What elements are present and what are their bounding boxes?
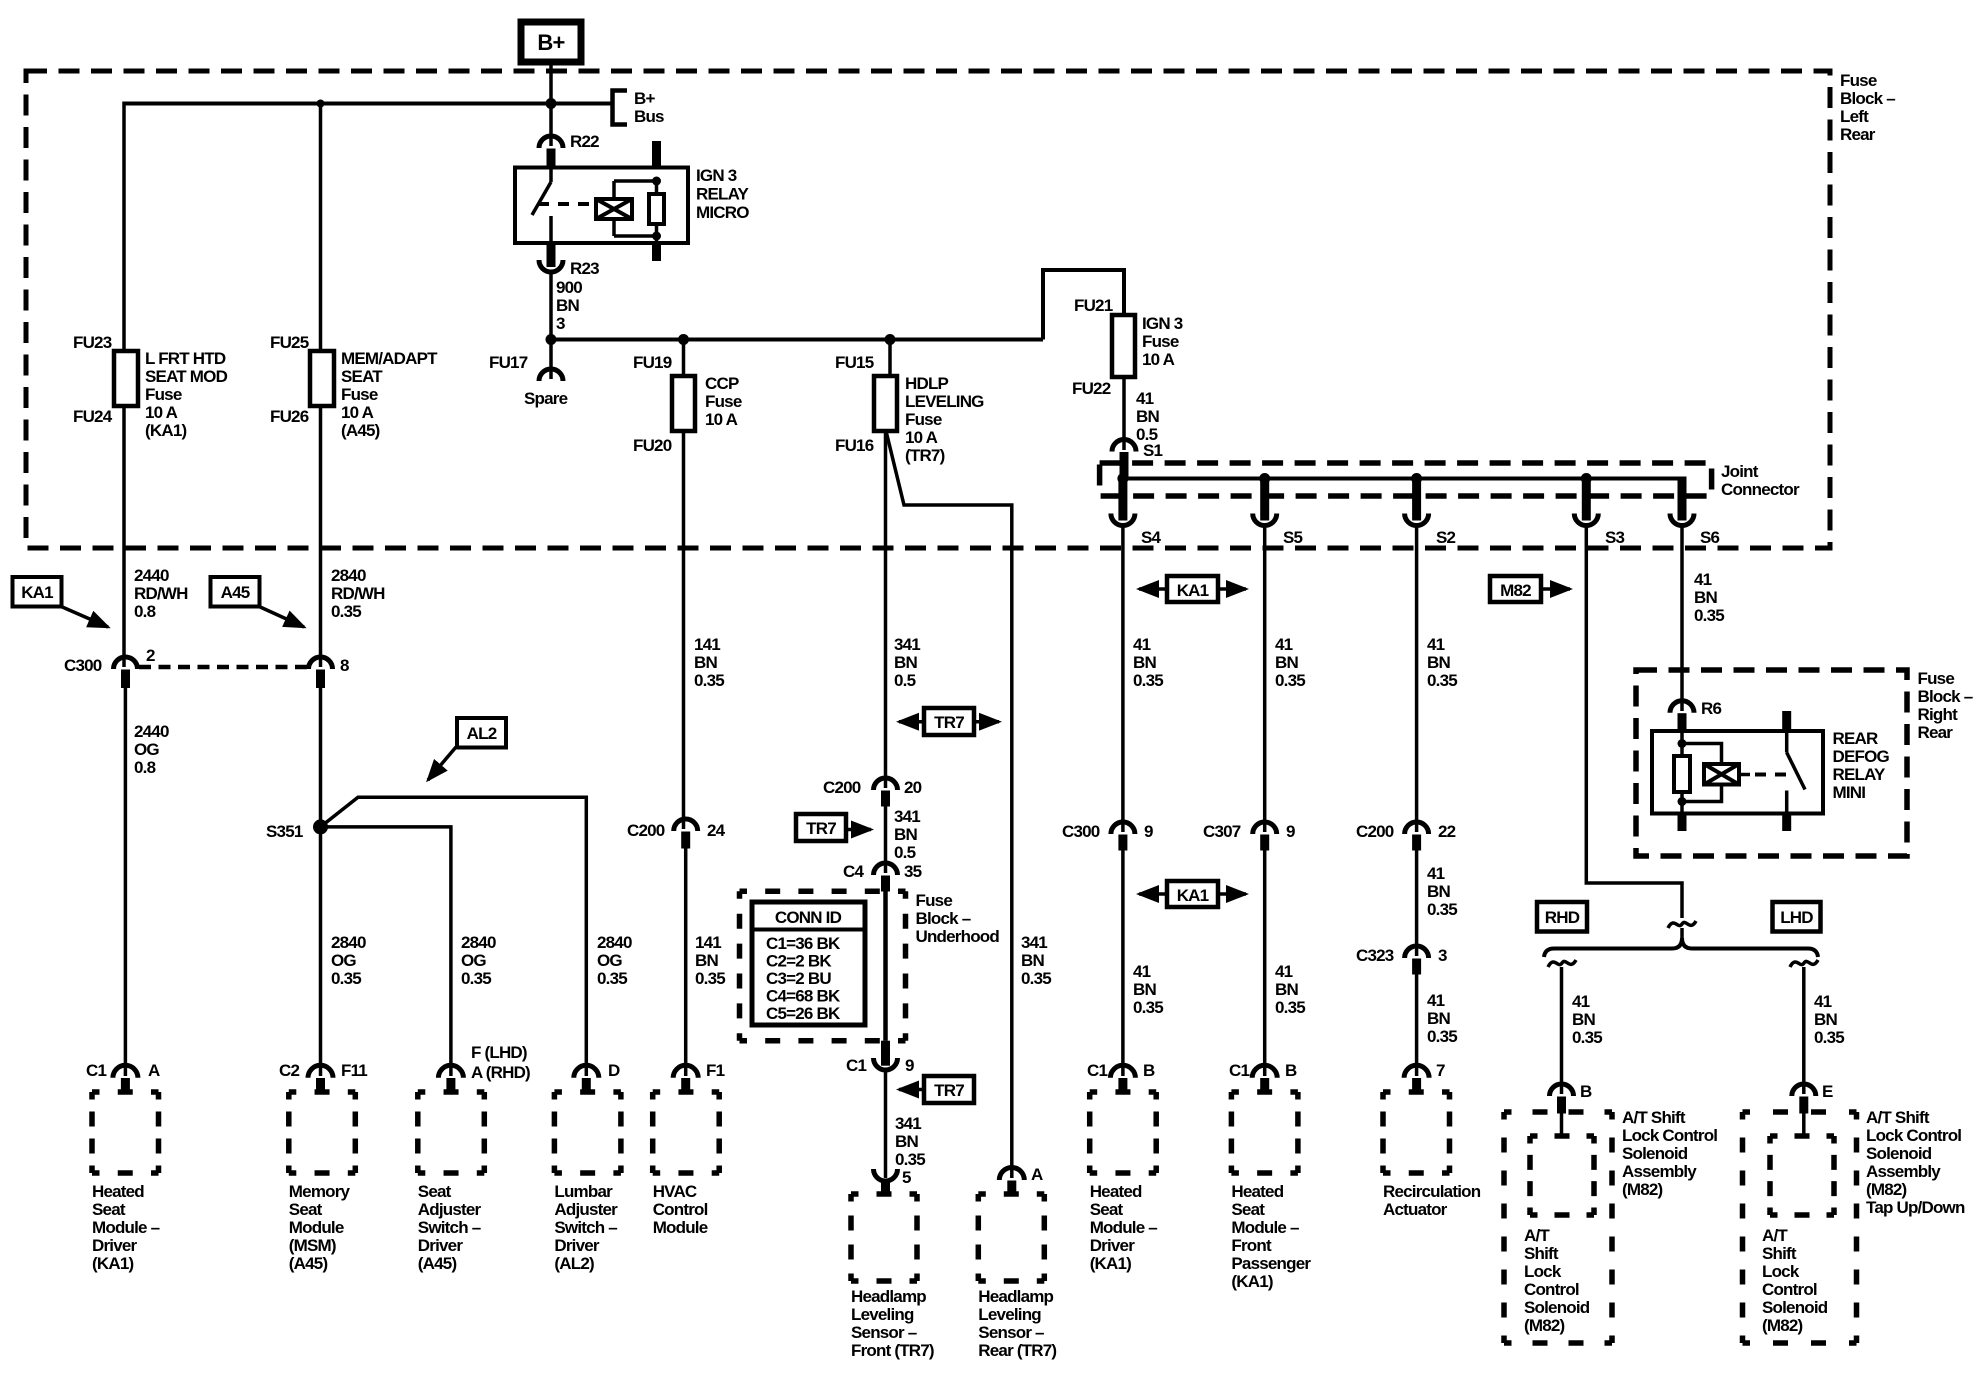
svg-text:R22: R22 xyxy=(570,132,599,151)
svg-text:Control: Control xyxy=(1762,1280,1817,1299)
wire S2 to C200 xyxy=(1415,526,1419,833)
svg-text:OG: OG xyxy=(461,951,486,970)
connector C300 pin 8 xyxy=(309,657,333,669)
connector C1 pin 9 xyxy=(881,1041,890,1066)
svg-text:FU19: FU19 xyxy=(633,353,672,372)
svg-text:FU24: FU24 xyxy=(73,407,113,426)
IGN3 relay control dashed line xyxy=(538,202,596,206)
svg-text:Seat: Seat xyxy=(418,1182,452,1201)
svg-text:Bus: Bus xyxy=(634,107,664,126)
svg-text:Seat: Seat xyxy=(1090,1200,1124,1219)
svg-text:DEFOG: DEFOG xyxy=(1833,747,1890,766)
svg-text:141: 141 xyxy=(694,635,720,654)
svg-text:Headlamp: Headlamp xyxy=(978,1287,1053,1306)
wire ignition feed bus xyxy=(551,338,1043,342)
fuse block left rear (dashed box) xyxy=(26,71,1830,548)
svg-text:Shift: Shift xyxy=(1524,1244,1559,1263)
svg-text:A: A xyxy=(1031,1165,1043,1184)
connector pin B xyxy=(1550,1084,1574,1096)
svg-text:A (RHD): A (RHD) xyxy=(471,1063,530,1082)
svg-text:Actuator: Actuator xyxy=(1383,1200,1448,1219)
svg-text:FU17: FU17 xyxy=(489,353,528,372)
connector R22 xyxy=(549,104,553,147)
svg-text:FU21: FU21 xyxy=(1074,296,1113,315)
fuse FU23 L FRT HTD SEAT MOD xyxy=(114,351,138,406)
svg-text:TR7: TR7 xyxy=(806,819,836,838)
svg-text:41: 41 xyxy=(1275,962,1293,981)
CONN ID table xyxy=(752,902,865,1025)
relay rear defog box xyxy=(1652,731,1823,814)
svg-text:Tap Up/Down: Tap Up/Down xyxy=(1866,1198,1965,1217)
svg-text:IGN 3: IGN 3 xyxy=(1142,314,1183,333)
rear defog relay control dashed line xyxy=(1755,773,1789,777)
wire S351 to lumbar branch xyxy=(321,797,587,1076)
wire 2440 RD/WH 0.8 xyxy=(122,406,126,667)
IGN3 relay pin stub top xyxy=(652,141,661,168)
svg-text:Assembly: Assembly xyxy=(1866,1162,1941,1181)
svg-text:Module: Module xyxy=(653,1218,708,1237)
svg-text:BN: BN xyxy=(894,653,917,672)
svg-text:0.35: 0.35 xyxy=(1572,1028,1602,1047)
node B+ Bus terminal xyxy=(613,91,628,125)
connector S6 xyxy=(1680,477,1684,479)
wire S3 to RHD/LHD split xyxy=(1586,526,1682,919)
svg-text:341: 341 xyxy=(894,807,920,826)
svg-text:2840: 2840 xyxy=(461,933,496,952)
svg-text:C2: C2 xyxy=(279,1061,299,1080)
HVAC control module box xyxy=(653,1092,720,1173)
svg-text:(AL2): (AL2) xyxy=(554,1254,594,1273)
svg-text:Fuse: Fuse xyxy=(916,891,953,910)
svg-text:41: 41 xyxy=(1427,864,1445,883)
svg-text:Lock: Lock xyxy=(1524,1262,1562,1281)
svg-text:Left: Left xyxy=(1840,107,1869,126)
svg-text:AL2: AL2 xyxy=(467,724,497,743)
svg-text:10 A: 10 A xyxy=(145,403,178,422)
svg-text:141: 141 xyxy=(695,933,721,952)
svg-text:0.35: 0.35 xyxy=(1694,606,1724,625)
svg-text:BN: BN xyxy=(895,1132,918,1151)
svg-text:Block –: Block – xyxy=(1918,687,1973,706)
connector C323 pin 3 xyxy=(1405,946,1429,958)
svg-text:TR7: TR7 xyxy=(934,713,964,732)
svg-text:(M82): (M82) xyxy=(1524,1316,1565,1335)
svg-text:Switch –: Switch – xyxy=(554,1218,617,1237)
svg-text:0.5: 0.5 xyxy=(894,671,916,690)
svg-text:RELAY: RELAY xyxy=(1833,765,1887,784)
svg-text:Fuse: Fuse xyxy=(905,410,942,429)
lumbar adjuster switch box xyxy=(554,1092,621,1173)
svg-text:BN: BN xyxy=(1814,1010,1837,1029)
svg-text:41: 41 xyxy=(1275,635,1293,654)
svg-text:Driver: Driver xyxy=(554,1236,600,1255)
svg-text:41: 41 xyxy=(1427,635,1445,654)
svg-text:Driver: Driver xyxy=(1090,1236,1136,1255)
svg-text:RD/WH: RD/WH xyxy=(134,584,188,603)
svg-text:0.35: 0.35 xyxy=(331,602,361,621)
svg-text:C4=68 BK: C4=68 BK xyxy=(766,987,841,1006)
svg-text:Underhood: Underhood xyxy=(916,927,1000,946)
svg-text:Fuse: Fuse xyxy=(1840,71,1877,90)
wire 2840 OG 0.35 upper xyxy=(319,688,323,1076)
svg-text:C1: C1 xyxy=(1087,1061,1107,1080)
IGN3 relay resistor xyxy=(649,194,664,224)
svg-text:BN: BN xyxy=(1694,588,1717,607)
svg-text:Solenoid: Solenoid xyxy=(1524,1298,1590,1317)
svg-text:BN: BN xyxy=(694,653,717,672)
svg-text:F1: F1 xyxy=(706,1061,725,1080)
fuse block underhood (dashed box) xyxy=(740,891,906,1041)
svg-text:9: 9 xyxy=(905,1056,914,1075)
svg-text:C4: C4 xyxy=(843,862,864,881)
svg-text:0.5: 0.5 xyxy=(894,843,916,862)
recirculation actuator box xyxy=(1383,1092,1450,1173)
svg-text:2840: 2840 xyxy=(331,566,366,585)
wire C323 to recirculation xyxy=(1415,975,1419,1077)
svg-text:Control: Control xyxy=(1524,1280,1579,1299)
svg-text:S5: S5 xyxy=(1283,528,1303,547)
svg-text:0.35: 0.35 xyxy=(1427,671,1457,690)
fuse FU21 IGN 3 xyxy=(1112,315,1135,377)
svg-text:S4: S4 xyxy=(1141,528,1162,547)
svg-text:Lock: Lock xyxy=(1762,1262,1800,1281)
svg-text:341: 341 xyxy=(895,1114,921,1133)
connector C307 pin 9 xyxy=(1253,822,1277,834)
A/T shift lock control solenoid assembly box RHD xyxy=(1504,1112,1612,1343)
svg-text:(M82): (M82) xyxy=(1762,1316,1803,1335)
seat adjuster switch driver box xyxy=(418,1092,485,1173)
svg-text:0.35: 0.35 xyxy=(1275,671,1305,690)
wire 41 BN 0.35 RHD xyxy=(1560,967,1564,1094)
svg-text:A/T: A/T xyxy=(1524,1226,1550,1245)
rear defog relay resistor xyxy=(1680,731,1684,756)
svg-text:KA1: KA1 xyxy=(1177,581,1209,600)
svg-text:Fuse: Fuse xyxy=(145,385,182,404)
svg-text:C200: C200 xyxy=(1356,822,1394,841)
svg-text:B: B xyxy=(1143,1061,1155,1080)
svg-text:BN: BN xyxy=(894,825,917,844)
svg-text:Solenoid: Solenoid xyxy=(1762,1298,1828,1317)
wire 141 BN 0.35 lower xyxy=(684,849,688,1077)
svg-text:HDLP: HDLP xyxy=(905,374,949,393)
svg-text:Rear: Rear xyxy=(1840,125,1876,144)
svg-text:Front: Front xyxy=(1231,1236,1272,1255)
heated seat module driver KA1 box xyxy=(1090,1092,1157,1173)
svg-text:341: 341 xyxy=(894,635,920,654)
svg-text:2440: 2440 xyxy=(134,566,169,585)
label A45 pointer xyxy=(211,577,260,607)
svg-text:(KA1): (KA1) xyxy=(1090,1254,1131,1273)
connector C300 pin 2 xyxy=(114,657,138,669)
relay U-IGN3 box xyxy=(515,168,688,244)
connector C1 pin B heated seat passenger xyxy=(1252,1065,1277,1078)
rear defog relay pin stub bottom right xyxy=(1782,814,1791,832)
svg-text:10 A: 10 A xyxy=(905,428,938,447)
connector pin A rear sensor xyxy=(999,1168,1024,1181)
label TR7 pointer left xyxy=(924,1076,974,1103)
svg-text:41: 41 xyxy=(1694,570,1712,589)
connector C200 pin 22 xyxy=(1405,822,1429,834)
svg-text:0.8: 0.8 xyxy=(134,602,156,621)
svg-text:Heated: Heated xyxy=(1231,1182,1283,1201)
connector S4 xyxy=(1118,479,1127,521)
svg-text:Module –: Module – xyxy=(1090,1218,1158,1237)
svg-text:C200: C200 xyxy=(823,778,861,797)
svg-text:Connector: Connector xyxy=(1721,480,1800,499)
label RHD xyxy=(1537,902,1587,932)
svg-text:0.35: 0.35 xyxy=(1133,671,1163,690)
svg-text:FU20: FU20 xyxy=(633,436,672,455)
svg-text:41: 41 xyxy=(1136,389,1154,408)
node B+ xyxy=(521,22,581,62)
svg-text:2: 2 xyxy=(146,646,155,665)
wire 341 BN 0.5 from FU16 xyxy=(884,431,888,788)
svg-text:C300: C300 xyxy=(64,656,102,675)
svg-text:B+: B+ xyxy=(537,30,564,55)
connector S3 xyxy=(1582,479,1591,521)
svg-text:C307: C307 xyxy=(1203,822,1241,841)
connector C200 pin 20 xyxy=(874,778,898,790)
svg-text:Rear (TR7): Rear (TR7) xyxy=(978,1341,1056,1360)
svg-text:0.35: 0.35 xyxy=(1427,1027,1457,1046)
fuse FU17 spare xyxy=(549,340,553,380)
svg-text:C2=2 BK: C2=2 BK xyxy=(766,952,832,971)
svg-text:Seat: Seat xyxy=(1231,1200,1265,1219)
wire S4 to C300 xyxy=(1121,526,1125,833)
svg-text:41: 41 xyxy=(1133,635,1151,654)
svg-text:Assembly: Assembly xyxy=(1622,1162,1697,1181)
svg-text:IGN 3: IGN 3 xyxy=(696,166,737,185)
svg-text:A/T: A/T xyxy=(1762,1226,1788,1245)
svg-text:M82: M82 xyxy=(1500,581,1531,600)
svg-text:C1: C1 xyxy=(846,1056,866,1075)
connector C1 pin A heated seat driver xyxy=(113,1065,138,1078)
svg-text:B: B xyxy=(1580,1082,1592,1101)
svg-text:RHD: RHD xyxy=(1545,908,1580,927)
connector R23 xyxy=(547,243,556,267)
svg-text:41: 41 xyxy=(1427,991,1445,1010)
wire 41 BN 0.5 xyxy=(1122,377,1126,450)
fuse block right rear (dashed box) xyxy=(1636,670,1907,856)
svg-text:L FRT HTD: L FRT HTD xyxy=(145,349,226,368)
svg-text:C3=2 BU: C3=2 BU xyxy=(766,969,831,988)
rear defog relay pin stub bottom left xyxy=(1678,814,1687,832)
svg-text:BN: BN xyxy=(1427,653,1450,672)
wire break symbol xyxy=(1668,921,1696,928)
svg-text:24: 24 xyxy=(707,821,726,840)
svg-text:BN: BN xyxy=(1427,882,1450,901)
connector pin E xyxy=(1792,1084,1816,1096)
svg-text:Passenger: Passenger xyxy=(1231,1254,1311,1273)
brace split RHD/LHD xyxy=(1544,938,1818,957)
svg-text:S3: S3 xyxy=(1605,528,1625,547)
svg-text:S6: S6 xyxy=(1700,528,1720,547)
svg-text:0.35: 0.35 xyxy=(331,969,361,988)
svg-text:A45: A45 xyxy=(221,583,250,602)
svg-text:LHD: LHD xyxy=(1780,908,1813,927)
svg-text:35: 35 xyxy=(904,862,922,881)
svg-text:BN: BN xyxy=(1427,1009,1450,1028)
svg-text:C5=26 BK: C5=26 BK xyxy=(766,1004,841,1023)
headlamp leveling sensor front box xyxy=(851,1194,917,1281)
A/T shift lock control solenoid inner box LHD xyxy=(1770,1136,1834,1215)
svg-text:0.35: 0.35 xyxy=(1814,1028,1844,1047)
svg-text:OG: OG xyxy=(331,951,356,970)
svg-text:0.35: 0.35 xyxy=(461,969,491,988)
svg-text:Adjuster: Adjuster xyxy=(554,1200,618,1219)
svg-text:Driver: Driver xyxy=(418,1236,464,1255)
fuse FU25 MEM/ADAPT SEAT xyxy=(310,351,334,406)
svg-text:HVAC: HVAC xyxy=(653,1182,697,1201)
svg-text:Memory: Memory xyxy=(289,1182,351,1201)
svg-text:41: 41 xyxy=(1572,992,1590,1011)
svg-text:0.35: 0.35 xyxy=(1021,969,1051,988)
wire through underhood block xyxy=(883,891,888,1040)
svg-text:10 A: 10 A xyxy=(705,410,738,429)
wire 41 BN 0.35 LHD xyxy=(1802,967,1806,1094)
svg-text:Front (TR7): Front (TR7) xyxy=(851,1341,934,1360)
svg-text:3: 3 xyxy=(556,314,565,333)
svg-text:BN: BN xyxy=(1136,407,1159,426)
svg-text:(A45): (A45) xyxy=(289,1254,328,1273)
connector C4 pin 35 xyxy=(874,863,898,875)
wire FU25 feed xyxy=(319,102,323,352)
svg-text:SEAT: SEAT xyxy=(341,367,383,386)
svg-text:20: 20 xyxy=(904,778,922,797)
svg-text:7: 7 xyxy=(1436,1061,1445,1080)
svg-text:CCP: CCP xyxy=(705,374,739,393)
svg-text:Seat: Seat xyxy=(289,1200,323,1219)
svg-text:Shift: Shift xyxy=(1762,1244,1797,1263)
label M82 pointer xyxy=(1490,576,1541,602)
svg-text:5: 5 xyxy=(902,1168,911,1187)
label KA1 double pointer lower xyxy=(1167,881,1218,907)
svg-text:D: D xyxy=(608,1061,620,1080)
svg-text:Sensor –: Sensor – xyxy=(851,1323,917,1342)
wire 341 BN 0.35 rear sensor xyxy=(886,431,1012,1178)
svg-text:(M82): (M82) xyxy=(1866,1180,1907,1199)
svg-text:MICRO: MICRO xyxy=(696,203,749,222)
connector pin D lumbar xyxy=(574,1065,599,1078)
svg-text:FU15: FU15 xyxy=(835,353,874,372)
fuse FU19 CCP xyxy=(682,340,686,377)
svg-text:FU26: FU26 xyxy=(270,407,309,426)
rear defog relay switch xyxy=(1782,711,1791,731)
connector C2 pin F11 memory seat xyxy=(308,1065,333,1078)
svg-text:Adjuster: Adjuster xyxy=(418,1200,482,1219)
connector S1 xyxy=(1112,440,1136,452)
node S351 xyxy=(313,819,328,834)
headlamp leveling sensor rear box xyxy=(978,1194,1044,1281)
wire 341 BN 0.35 front sensor xyxy=(884,1070,888,1178)
wire S5 to C307 xyxy=(1263,526,1267,833)
IGN3 relay pin stub bottom xyxy=(652,243,661,261)
svg-text:0.35: 0.35 xyxy=(597,969,627,988)
svg-text:RD/WH: RD/WH xyxy=(331,584,385,603)
wire FU23 feed xyxy=(122,102,126,352)
svg-text:(KA1): (KA1) xyxy=(145,421,186,440)
svg-text:Fuse: Fuse xyxy=(1142,332,1179,351)
svg-text:Sensor –: Sensor – xyxy=(978,1323,1044,1342)
svg-text:BN: BN xyxy=(1021,951,1044,970)
svg-text:Control: Control xyxy=(653,1200,708,1219)
svg-text:F11: F11 xyxy=(341,1061,367,1080)
connector pin F1 HVAC xyxy=(673,1065,698,1078)
heated seat module driver box xyxy=(92,1092,159,1173)
svg-text:Module: Module xyxy=(289,1218,344,1237)
svg-text:0.35: 0.35 xyxy=(1427,900,1457,919)
label KA1 double pointer xyxy=(1167,576,1218,602)
svg-text:LEVELING: LEVELING xyxy=(905,392,984,411)
svg-text:F (LHD): F (LHD) xyxy=(471,1043,527,1062)
svg-text:Block –: Block – xyxy=(1840,89,1895,108)
svg-text:FU25: FU25 xyxy=(270,333,309,352)
rear defog relay coil xyxy=(1682,744,1722,765)
svg-text:R6: R6 xyxy=(1701,699,1721,718)
svg-text:Lock Control: Lock Control xyxy=(1866,1126,1961,1145)
connector C1 pin B heated seat driver xyxy=(1110,1065,1135,1078)
connector pin 7 recirculation xyxy=(1404,1065,1429,1078)
svg-text:BN: BN xyxy=(1275,980,1298,999)
A/T shift lock control solenoid assembly box LHD xyxy=(1743,1112,1857,1343)
svg-text:900: 900 xyxy=(556,278,582,297)
svg-text:(A45): (A45) xyxy=(341,421,380,440)
label LHD xyxy=(1773,902,1821,932)
svg-text:341: 341 xyxy=(1021,933,1047,952)
svg-text:E: E xyxy=(1822,1082,1833,1101)
wire C300 to C1 B xyxy=(1121,851,1125,1077)
svg-text:Fuse: Fuse xyxy=(341,385,378,404)
svg-text:Fuse: Fuse xyxy=(1918,669,1955,688)
svg-text:A/T Shift: A/T Shift xyxy=(1622,1108,1686,1127)
svg-text:S2: S2 xyxy=(1436,528,1456,547)
wire break symbol RHD branch xyxy=(1548,960,1576,967)
IGN3 relay switch xyxy=(549,168,553,183)
connector C300 pin 9 xyxy=(1111,822,1135,834)
svg-text:Module –: Module – xyxy=(1231,1218,1299,1237)
svg-text:Fuse: Fuse xyxy=(705,392,742,411)
connector C300 dashed link xyxy=(139,665,308,670)
svg-text:10 A: 10 A xyxy=(341,403,374,422)
connector C200 pin 24 xyxy=(674,819,698,831)
svg-text:10 A: 10 A xyxy=(1142,350,1175,369)
svg-text:A/T Shift: A/T Shift xyxy=(1866,1108,1930,1127)
svg-text:Joint: Joint xyxy=(1721,462,1759,481)
svg-text:C1: C1 xyxy=(86,1061,106,1080)
svg-text:Solenoid: Solenoid xyxy=(1622,1144,1688,1163)
svg-text:BN: BN xyxy=(1133,980,1156,999)
svg-text:(KA1): (KA1) xyxy=(1231,1272,1272,1291)
wire break symbol LHD branch xyxy=(1790,960,1818,967)
svg-text:C200: C200 xyxy=(627,821,665,840)
svg-text:BN: BN xyxy=(556,296,579,315)
svg-text:Heated: Heated xyxy=(1090,1182,1142,1201)
svg-text:22: 22 xyxy=(1438,822,1456,841)
label AL2 pointer xyxy=(457,718,506,748)
svg-text:Driver: Driver xyxy=(92,1236,138,1255)
svg-text:TR7: TR7 xyxy=(934,1081,964,1100)
svg-text:0.35: 0.35 xyxy=(694,671,724,690)
svg-text:(M82): (M82) xyxy=(1622,1180,1663,1199)
wire top horizontal bus xyxy=(124,102,612,106)
svg-text:9: 9 xyxy=(1144,822,1153,841)
svg-text:Lock Control: Lock Control xyxy=(1622,1126,1717,1145)
label TR7 pointer right xyxy=(796,814,846,841)
wire B+ to bus xyxy=(549,62,553,104)
svg-text:0.8: 0.8 xyxy=(134,758,156,777)
svg-text:CONN ID: CONN ID xyxy=(775,908,842,927)
svg-text:Spare: Spare xyxy=(524,389,568,408)
